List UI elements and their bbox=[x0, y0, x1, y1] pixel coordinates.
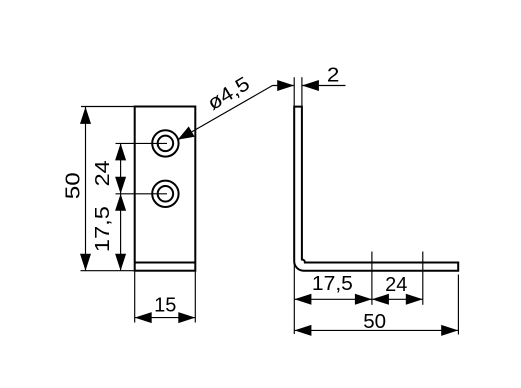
extension line bottom left bbox=[81, 270, 135, 272]
dimension 50 bottom arrow right bbox=[441, 325, 458, 336]
svg-text:24: 24 bbox=[92, 160, 114, 186]
extension line thickness left bbox=[293, 77, 295, 106]
leader arrowhead bbox=[178, 126, 195, 139]
hole H2 center line bbox=[116, 193, 168, 195]
dimension 50 bottom arrow left bbox=[294, 325, 311, 336]
svg-text:50: 50 bbox=[63, 172, 85, 199]
hole H1 outer circle bbox=[152, 130, 178, 156]
extension line thickness right bbox=[301, 77, 303, 106]
dimension 17,5/24 line bbox=[294, 298, 422, 300]
extension line side view right bbox=[457, 275, 459, 335]
dimension 15 arrow right bbox=[178, 312, 195, 323]
leader line for hole diameter bbox=[178, 86, 273, 141]
extension line side view left bbox=[293, 262, 295, 334]
front view bend line bbox=[135, 262, 196, 264]
dimension 15 line bbox=[135, 317, 196, 319]
dimension 2 arrow left-pointing bbox=[302, 80, 319, 91]
side view L profile bbox=[294, 107, 458, 271]
extension line bottom view right bbox=[194, 271, 196, 323]
hole H1 center line bbox=[116, 142, 168, 144]
dimension 2 arrow right-pointing bbox=[277, 80, 294, 91]
dimension 2 line right bbox=[302, 85, 346, 87]
svg-text:2: 2 bbox=[327, 64, 340, 86]
svg-text:24: 24 bbox=[385, 274, 407, 296]
extension line hole2 position bbox=[422, 252, 424, 305]
svg-text:50: 50 bbox=[363, 310, 386, 333]
dimension 17,5 right arrow left-pointing bbox=[294, 294, 311, 305]
hole H1 inner circle bbox=[158, 136, 174, 152]
front view plate outline bbox=[135, 107, 196, 271]
dimension 17,5 right arrow right-pointing bbox=[355, 294, 372, 305]
svg-text:17,5: 17,5 bbox=[92, 206, 114, 252]
svg-text:17,5: 17,5 bbox=[312, 273, 353, 295]
dimension 15 arrow left bbox=[135, 312, 152, 323]
extension line hole1 position bbox=[371, 252, 373, 305]
svg-text:15: 15 bbox=[154, 295, 176, 317]
dimension 17,5 arrow down bbox=[115, 254, 126, 271]
dimension 50 left arrow down bbox=[80, 254, 91, 271]
dimension 24 right arrow right-pointing bbox=[406, 294, 423, 305]
dimension 17,5 arrow up bbox=[115, 194, 126, 211]
extension line top left bbox=[81, 106, 135, 108]
dimension 50 left line bbox=[85, 107, 87, 271]
dimension 24/17,5 left line bbox=[120, 143, 122, 270]
dimension 24 right arrow left-pointing bbox=[372, 294, 389, 305]
extension line bottom view left bbox=[134, 271, 136, 323]
dimension 24 arrow down bbox=[115, 177, 126, 194]
hole H2 inner circle bbox=[158, 186, 174, 202]
hole H2 outer circle bbox=[152, 181, 178, 207]
dimension 50 left arrow up bbox=[80, 107, 91, 124]
dimension 50 bottom line bbox=[294, 329, 458, 331]
dimension 24 arrow up bbox=[115, 143, 126, 160]
dimension 2 line left bbox=[273, 85, 295, 87]
